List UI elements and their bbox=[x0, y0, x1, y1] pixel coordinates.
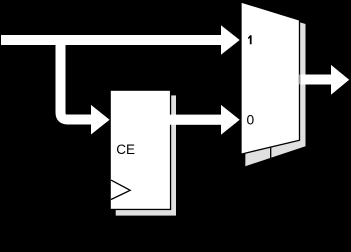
register U1 shadow bbox=[116, 95, 176, 215]
border remnant at mux output bbox=[299, 75, 301, 85]
wire: branch elbow to register D input bbox=[61, 36, 92, 120]
mux pin label 1 bbox=[248, 35, 252, 44]
mux U2 body bbox=[241, 2, 300, 154]
arrowhead: mux output bbox=[331, 65, 349, 95]
arrowhead: main input to mux pin 1 bbox=[221, 25, 240, 55]
svg-text:0: 0 bbox=[246, 113, 254, 128]
register U1 body bbox=[110, 90, 170, 209]
arrowhead: branch into register bbox=[91, 105, 110, 135]
arrowhead: register output to mux pin 0 bbox=[221, 105, 240, 135]
mux U2 shadow bbox=[245, 7, 305, 167]
mux select input line bbox=[270, 147, 272, 160]
wire: register Q output bbox=[169, 115, 221, 125]
clock input triangle bbox=[111, 180, 130, 199]
wire: mux output bbox=[300, 75, 331, 85]
wire: main input bus bbox=[1, 35, 221, 45]
svg-text:CE: CE bbox=[116, 142, 135, 157]
